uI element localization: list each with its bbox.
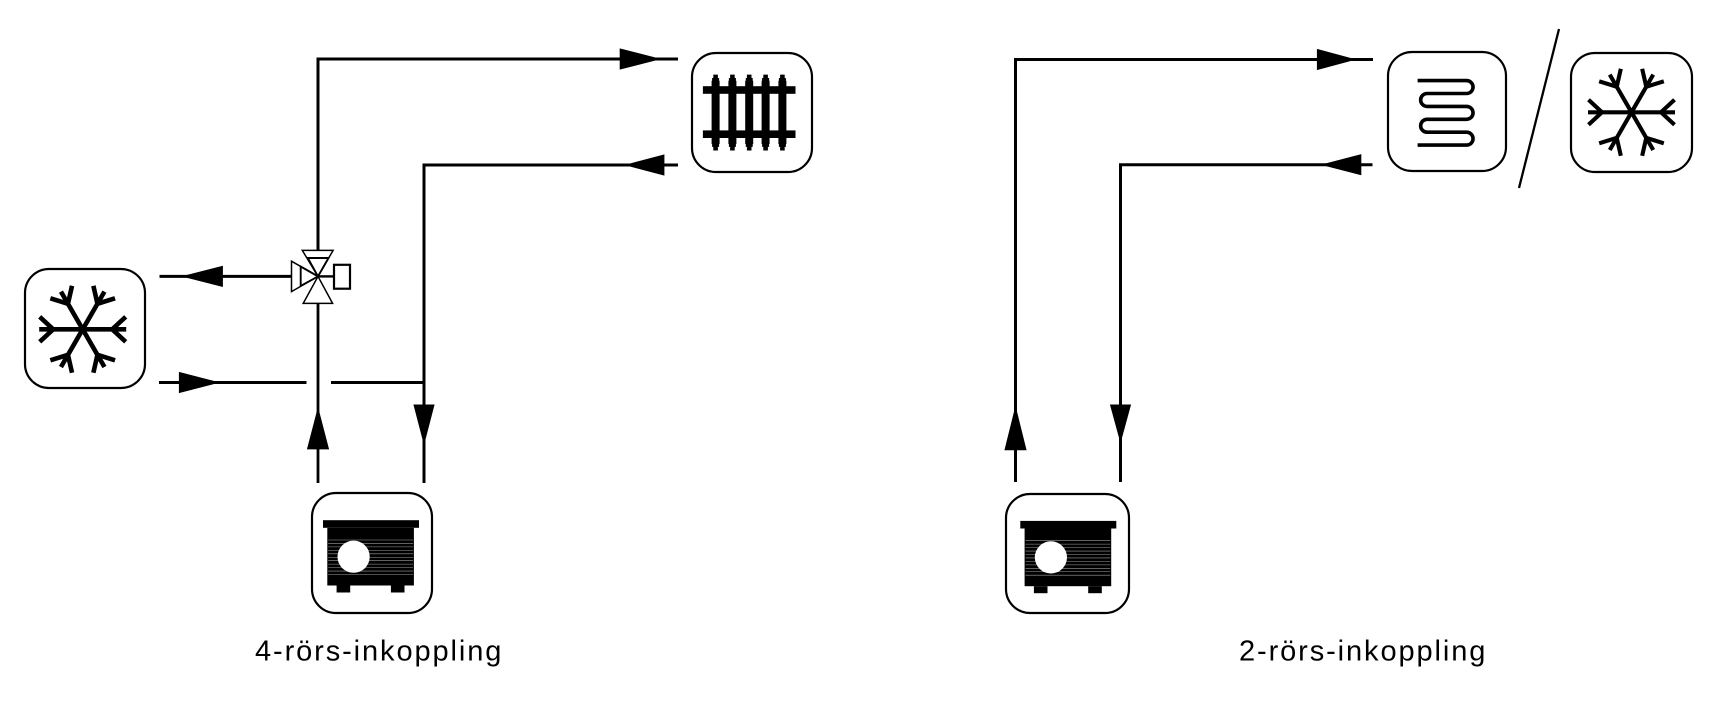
- valve actuator box: [334, 265, 350, 289]
- flow arrow left on floor coil return: [1321, 154, 1362, 175]
- snowflake icon (right): [1588, 68, 1675, 156]
- flow arrow left toward cooling unit: [181, 266, 223, 287]
- separator slash: [1519, 29, 1559, 188]
- wire: radiator return down to heat pump (left): [424, 165, 678, 483]
- snowflake icon (left): [39, 285, 126, 373]
- wire: valve to radiator supply (left): [318, 59, 678, 250]
- flow arrow left on radiator return: [624, 154, 664, 175]
- wire: floor coil return down to heat pump (right): [1121, 165, 1373, 482]
- wire: heat pump to valve riser (left): [317, 303, 320, 483]
- valve left port outer triangle: [292, 261, 319, 291]
- flow arrow up on left riser: [307, 407, 329, 450]
- flow arrow right on floor coil supply: [1317, 49, 1356, 70]
- valve top port outer triangle: [302, 250, 333, 276]
- flow arrow down on left return drop: [413, 405, 434, 446]
- valve top port inner triangle: [308, 258, 329, 276]
- icon box: cooling (snowflake, right): [1571, 53, 1692, 172]
- icon box: heat pump (right): [1006, 494, 1129, 613]
- heat pump icon (right): [1020, 521, 1116, 593]
- icon box: cooling unit (snowflake, left): [25, 269, 145, 388]
- floor heating coil icon: [1418, 81, 1473, 146]
- wire: heat pump supply riser to floor coil (right): [1016, 60, 1374, 483]
- svg-text:2-rörs-inkoppling: 2-rörs-inkoppling: [1239, 636, 1487, 668]
- heat pump icon (left): [323, 520, 419, 592]
- flow arrow down on right return drop: [1110, 405, 1131, 444]
- flow arrow up on right riser: [1004, 406, 1026, 451]
- radiator icon: [703, 75, 796, 151]
- valve bottom port triangle: [303, 276, 332, 303]
- flow arrow right on cooling return: [179, 372, 220, 393]
- icon box: floor heating coil: [1388, 52, 1506, 171]
- 3-way valve V1: [292, 250, 351, 303]
- wire: cooling unit return, right segment after line break: [331, 381, 424, 384]
- wire: valve to cooling unit (left thick): [160, 275, 293, 278]
- icon box: radiator: [692, 53, 812, 172]
- icon box: heat pump (left): [312, 493, 432, 613]
- valve left port inner triangle: [301, 267, 318, 286]
- svg-text:4-rörs-inkoppling: 4-rörs-inkoppling: [255, 636, 503, 668]
- flow arrow right on radiator supply: [620, 48, 662, 69]
- wire: cooling unit return, left segment: [159, 381, 307, 384]
- valve actuator stem: [318, 275, 334, 277]
